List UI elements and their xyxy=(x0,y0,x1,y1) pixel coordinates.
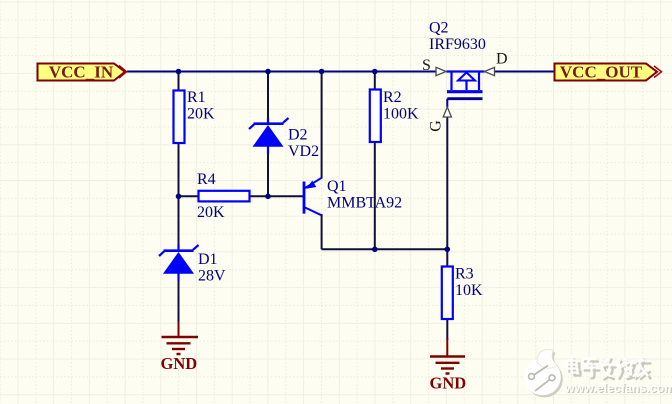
zener diode D1 xyxy=(159,244,226,285)
svg-text:100K: 100K xyxy=(383,106,419,123)
wire: R4 left junction to R4 xyxy=(179,195,200,197)
node: top rail / D2 junction xyxy=(265,69,271,75)
svg-text:MMBTA92: MMBTA92 xyxy=(327,195,402,212)
node: bottom rail / R2 junction xyxy=(372,247,378,253)
node: R4 row / D2 junction xyxy=(265,194,271,200)
transistor Q2 (P-MOSFET IRF9630) xyxy=(429,20,486,108)
svg-text:VD2: VD2 xyxy=(288,143,319,160)
pin G of Q2 xyxy=(428,107,452,132)
wire: R1 bottom to R4 row xyxy=(178,143,180,197)
svg-text:20K: 20K xyxy=(187,106,215,123)
svg-text:S: S xyxy=(422,57,431,74)
svg-text:VCC_IN: VCC_IN xyxy=(49,63,114,82)
wire: bottom rail to R3 top xyxy=(446,249,448,267)
svg-text:Q2: Q2 xyxy=(429,20,449,37)
svg-text:GND: GND xyxy=(430,374,467,393)
wire: top rail to Q1 emitter xyxy=(321,72,323,179)
svg-text:D: D xyxy=(496,51,508,68)
svg-text:R3: R3 xyxy=(455,266,474,283)
node: R4 row / R1-D1 junction xyxy=(176,194,182,200)
wire: top rail to R1 top xyxy=(178,72,180,92)
svg-text:D2: D2 xyxy=(288,127,308,144)
wire: R4 row junction down to D1 xyxy=(178,196,180,245)
svg-text:G: G xyxy=(428,120,445,132)
transistor Q1 (PNP MMBTA92) xyxy=(304,178,402,216)
wire: bottom rail Q1 collector to gate/R3 column xyxy=(322,248,448,250)
svg-text:20K: 20K xyxy=(197,204,225,221)
wire: Q2 drain to VCC_OUT xyxy=(495,71,555,73)
resistor R2 xyxy=(370,89,419,142)
svg-text:R4: R4 xyxy=(197,171,216,188)
svg-text:D1: D1 xyxy=(198,251,218,268)
wire: top rail to R2 top xyxy=(374,72,376,91)
port VCC_OUT xyxy=(555,63,662,82)
pin D of Q2 xyxy=(485,51,508,76)
resistor R1 xyxy=(174,89,216,143)
watermark text 电子发烧友 xyxy=(567,357,651,380)
node: top rail / Q1 emitter junction xyxy=(319,69,325,75)
wire: D2 anode to R4 row xyxy=(267,150,269,196)
node: bottom rail / gate-R3 junction xyxy=(445,247,451,253)
svg-text:www.elecfans.com: www.elecfans.com xyxy=(564,381,672,395)
wire: Q2 gate down to bottom rail xyxy=(446,117,448,249)
svg-text:Q1: Q1 xyxy=(327,178,347,195)
wire: VCC_IN to Q2 source (top rail) xyxy=(127,71,436,73)
node: top rail / R2 junction xyxy=(372,69,378,75)
pin S of Q2 xyxy=(422,57,446,76)
ground GND (right, under R3) xyxy=(430,338,467,393)
watermark logo circle xyxy=(524,350,563,398)
zener diode D2 xyxy=(249,118,319,160)
svg-text:IRF9630: IRF9630 xyxy=(429,36,486,53)
port VCC_IN xyxy=(38,63,127,82)
svg-text:10K: 10K xyxy=(455,282,483,299)
wire: D1 anode to GND xyxy=(178,280,180,322)
resistor R4 xyxy=(197,171,250,221)
svg-text:R2: R2 xyxy=(383,89,402,106)
ground GND (left, under D1) xyxy=(161,322,199,373)
wire: top rail to D2 cathode xyxy=(267,72,269,121)
wire: R3 bottom to GND xyxy=(446,319,448,340)
svg-text:28V: 28V xyxy=(198,268,226,285)
wire: R4 to Q1 base xyxy=(249,195,303,197)
resistor R3 xyxy=(442,266,483,320)
watermark text www.elecfans.com xyxy=(564,381,672,396)
svg-text:VCC_OUT: VCC_OUT xyxy=(560,63,643,82)
svg-text:GND: GND xyxy=(161,354,198,373)
svg-text:R1: R1 xyxy=(187,89,206,106)
wire: R2 bottom to bottom rail xyxy=(374,142,376,249)
wire: Q1 collector down to bottom rail xyxy=(321,214,323,249)
node: top rail / R1 junction xyxy=(176,69,182,75)
